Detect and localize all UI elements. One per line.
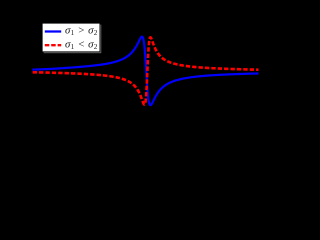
legend blue sample line xyxy=(45,30,61,32)
legend red dashed sample line xyxy=(45,44,61,46)
svg-text:σ1 < σ2: σ1 < σ2 xyxy=(65,38,98,51)
legend box xyxy=(42,23,100,52)
legend shadow xyxy=(44,25,102,54)
red dashed curve (sigma1 < sigma2) xyxy=(32,37,258,104)
blue solid curve (sigma1 > sigma2) xyxy=(32,37,258,106)
svg-text:σ1 > σ2: σ1 > σ2 xyxy=(65,24,98,37)
